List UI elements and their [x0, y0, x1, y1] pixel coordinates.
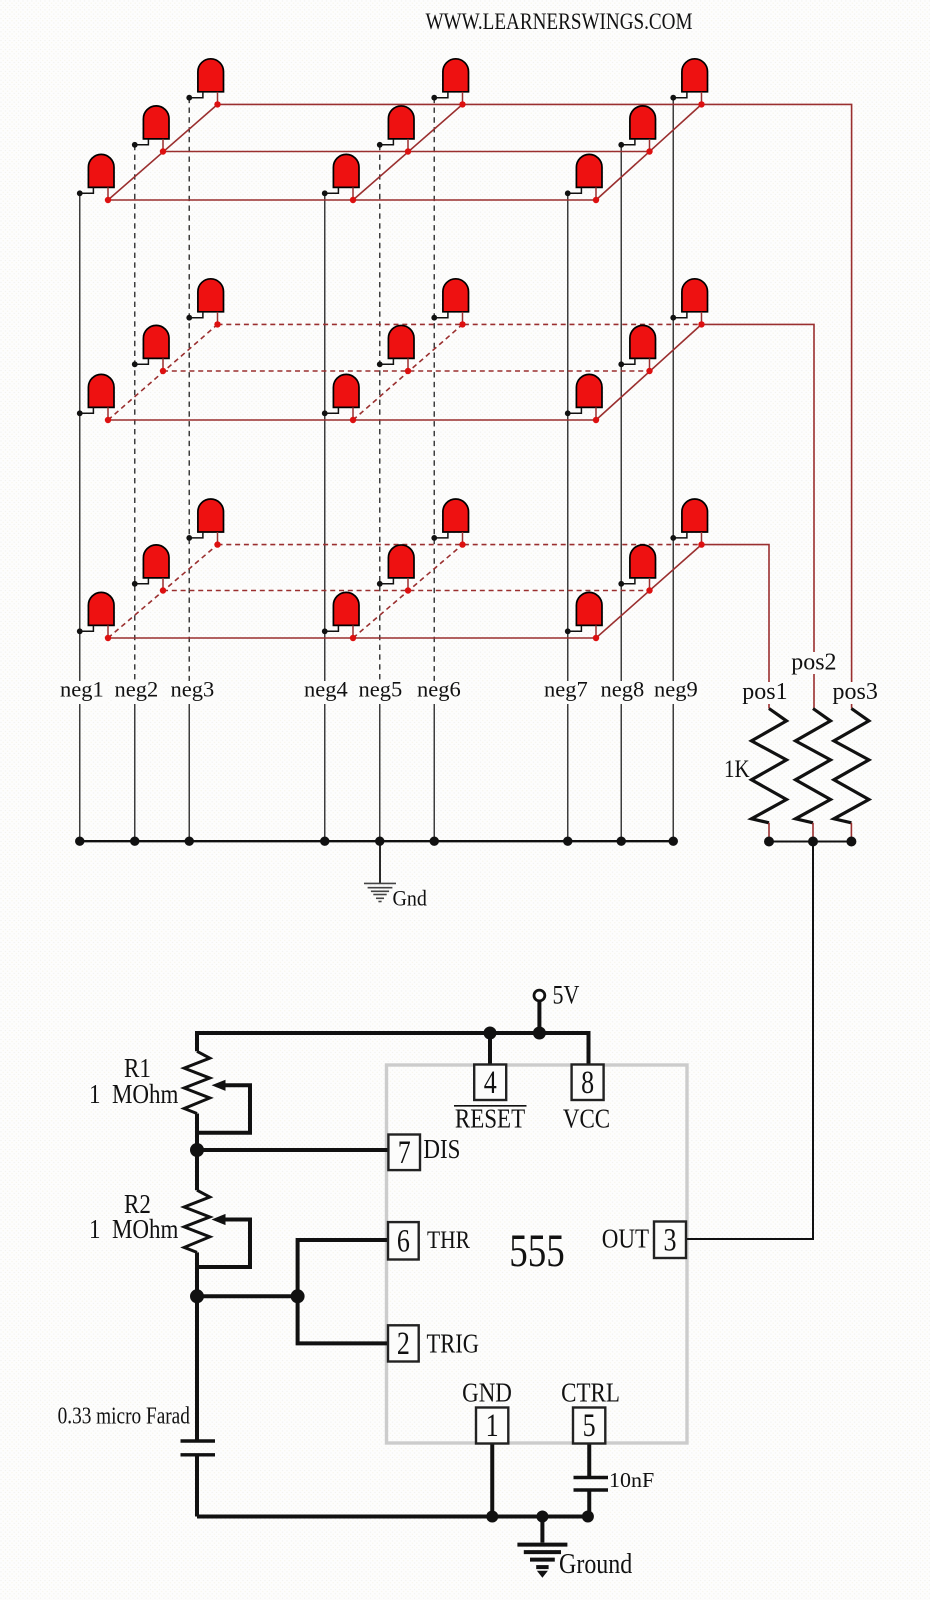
wire neg9 cathode column	[672, 98, 674, 842]
wire neg5 cathode column	[379, 145, 381, 841]
svg-text:neg4: neg4	[304, 677, 348, 702]
svg-text:neg2: neg2	[115, 677, 159, 702]
svg-text:THR: THR	[427, 1226, 470, 1254]
potentiometer R1 1 MOhm	[184, 1051, 250, 1133]
resistor R4 1K (pos3)	[834, 709, 869, 842]
node rail-pin4	[484, 1027, 497, 1040]
svg-text:5: 5	[583, 1408, 596, 1443]
label neg5	[357, 677, 407, 705]
wire layer1 group3 diagonal (anode rail)	[596, 104, 702, 200]
wire layer1 group2 diagonal (anode rail)	[353, 104, 463, 200]
svg-text:neg6: neg6	[417, 677, 461, 702]
svg-text:pos2: pos2	[791, 649, 836, 675]
svg-text:neg5: neg5	[359, 677, 403, 702]
svg-text:4: 4	[484, 1065, 497, 1100]
pin 8 of U1	[572, 1065, 604, 1101]
svg-text:neg3: neg3	[171, 677, 215, 702]
wire cathode ground bus	[80, 840, 674, 842]
wire layer2 group3 diagonal (anode rail)	[596, 324, 702, 420]
LED layer2 position 2	[132, 325, 169, 374]
svg-text:Ground: Ground	[559, 1547, 632, 1580]
node resistor pos2 bottom	[808, 837, 818, 847]
svg-text:VCC: VCC	[563, 1104, 610, 1134]
wire layer3 group3 diagonal (anode rail)	[596, 545, 702, 638]
LED layer1 position 9	[670, 59, 707, 108]
wire R2 bottom to capacitor	[195, 1252, 199, 1441]
LED layer2 position 7	[565, 374, 602, 423]
svg-text:GND: GND	[462, 1378, 512, 1408]
wire neg6 cathode column	[433, 98, 435, 842]
svg-text:8: 8	[581, 1065, 594, 1100]
LED layer1 position 6	[431, 59, 468, 108]
LED layer1 position 5	[377, 106, 414, 155]
LED layer3 position 6	[431, 499, 468, 548]
wire layer1 front-row horizontal (anode rail)	[108, 199, 596, 201]
LED layer1 position 3	[186, 59, 223, 108]
node bus neg4	[320, 837, 329, 846]
LED layer2 position 6	[431, 279, 468, 328]
pin 5 of U1	[573, 1408, 605, 1444]
node bus neg9	[669, 837, 678, 846]
wire neg3 cathode column	[188, 98, 190, 842]
wire OUT (pin3) to riser	[686, 1238, 814, 1240]
svg-text:1: 1	[486, 1408, 499, 1443]
svg-text:1K: 1K	[724, 755, 750, 783]
node bus pin1	[486, 1511, 498, 1523]
wire layer3 front-row horizontal (anode rail)	[108, 637, 596, 639]
svg-text:TRIG: TRIG	[427, 1330, 480, 1359]
wire layer2 front-row horizontal (anode rail)	[108, 419, 596, 421]
wire neg8 cathode column	[620, 145, 622, 841]
label pos3	[831, 679, 879, 705]
svg-text:5V: 5V	[553, 981, 580, 1010]
LED layer1 position 2	[132, 106, 169, 155]
label neg1	[58, 677, 108, 705]
svg-text:6: 6	[397, 1224, 410, 1259]
pin 7 of U1	[388, 1135, 420, 1171]
wire pos3 from layer1 to resistor	[702, 104, 852, 708]
LED layer1 position 4	[322, 154, 359, 203]
svg-text:WWW.LEARNERSWINGS.COM: WWW.LEARNERSWINGS.COM	[426, 8, 693, 34]
wire bottom ground bus	[197, 1515, 593, 1519]
wire R1 bottom to R2 top chain	[195, 1114, 199, 1191]
capacitor C1 0.33 micro Farad	[181, 1439, 216, 1442]
node resistor pos3 bottom	[846, 837, 856, 847]
wire layer2 back-row horizontal (anode rail)	[218, 323, 702, 325]
label neg3	[169, 677, 219, 705]
resistor R3 1K (pos2)	[796, 709, 831, 842]
node bus 10nF	[582, 1511, 594, 1523]
wire 5V top rail	[197, 1033, 589, 1065]
node bus neg8	[617, 837, 626, 846]
wire OUT riser to resistors	[812, 842, 814, 1240]
node resistor pos1 bottom	[764, 837, 774, 847]
label neg8	[599, 677, 649, 705]
LED layer2 position 9	[670, 279, 707, 328]
ground symbol (555 circuit)	[517, 1517, 567, 1578]
wire layer2 middle-row horizontal (anode rail)	[163, 370, 650, 372]
wire layer1 group1 diagonal (anode rail)	[108, 104, 218, 200]
svg-text:7: 7	[398, 1135, 411, 1170]
LED layer3 position 4	[322, 592, 359, 641]
pin 2 of U1	[388, 1325, 419, 1361]
wire 10nF to bus	[587, 1490, 591, 1517]
wire neg4 cathode column	[324, 193, 326, 841]
wire DIS (pin7) to R1/R2 junction	[197, 1148, 389, 1152]
wire resistor-bottom link	[769, 841, 851, 843]
label neg4	[302, 677, 352, 705]
LED layer3 position 5	[377, 545, 414, 594]
svg-text:555: 555	[509, 1226, 564, 1277]
wire pin4 supply drop	[488, 1033, 492, 1065]
wire THR (pin6) bend	[298, 1240, 389, 1296]
wire neg2 cathode column	[134, 145, 136, 841]
svg-text:Gnd: Gnd	[393, 885, 428, 910]
LED layer3 position 2	[132, 545, 169, 594]
svg-text:1 MOhm: 1 MOhm	[89, 1079, 179, 1109]
label neg6	[415, 677, 465, 705]
node rail-5V	[533, 1027, 546, 1040]
label neg7	[542, 677, 592, 705]
label neg9	[652, 677, 702, 705]
LED layer1 position 1	[77, 154, 114, 203]
label neg2	[113, 677, 163, 705]
svg-text:pos1: pos1	[742, 679, 787, 705]
LED layer1 position 7	[565, 154, 602, 203]
LED layer1 position 8	[618, 106, 655, 155]
node bus ground	[536, 1511, 548, 1523]
svg-text:pos3: pos3	[833, 679, 878, 705]
resistor R2 1K (pos1)	[752, 709, 787, 842]
wire layer1 back-row horizontal (anode rail)	[218, 103, 702, 105]
LED layer3 position 3	[186, 499, 223, 548]
wire neg1 cathode column	[79, 193, 81, 841]
LED layer2 position 5	[377, 325, 414, 374]
wire layer3 group2 diagonal (anode rail)	[353, 545, 463, 638]
svg-text:1 MOhm: 1 MOhm	[89, 1214, 179, 1244]
node THR/TRIG junction	[291, 1289, 305, 1303]
supply 5V terminal	[534, 990, 545, 1001]
wire neg7 cathode column	[567, 193, 569, 841]
ground symbol Gnd (cube)	[364, 841, 396, 901]
svg-text:neg8: neg8	[601, 677, 645, 702]
svg-text:neg1: neg1	[60, 677, 104, 702]
node bus neg7	[563, 837, 572, 846]
svg-text:CTRL: CTRL	[561, 1378, 620, 1408]
wire capacitor to bottom bus	[195, 1455, 199, 1517]
node bus neg1	[75, 837, 84, 846]
node bus neg6	[430, 837, 439, 846]
wire pos1 from layer3 to resistor	[702, 545, 770, 709]
LED layer2 position 4	[322, 374, 359, 423]
label pos2	[789, 649, 837, 675]
node DIS junction	[190, 1143, 204, 1157]
svg-text:neg7: neg7	[544, 677, 588, 702]
LED layer2 position 1	[77, 374, 114, 423]
svg-text:DIS: DIS	[423, 1134, 460, 1164]
wire layer1 middle-row horizontal (anode rail)	[163, 151, 650, 153]
wire TRIG (pin2) bend	[298, 1296, 389, 1343]
wire junction link	[197, 1294, 298, 1298]
LED layer2 position 8	[618, 325, 655, 374]
wire layer2 group2 diagonal (anode rail)	[353, 324, 463, 420]
IC U1 555 body outline	[387, 1065, 688, 1443]
svg-text:0.33 micro Farad: 0.33 micro Farad	[58, 1403, 190, 1430]
svg-text:10nF: 10nF	[609, 1468, 654, 1491]
svg-text:neg9: neg9	[654, 677, 698, 702]
pin 1 of U1	[476, 1408, 508, 1444]
pin 4 of U1	[474, 1065, 506, 1101]
wire CTRL pin5 drop	[587, 1444, 591, 1478]
wire GND pin1 drop	[490, 1444, 494, 1517]
capacitor C2 10nF	[574, 1476, 609, 1479]
wire layer3 group1 diagonal (anode rail)	[108, 545, 218, 638]
svg-text:RESET: RESET	[455, 1104, 526, 1134]
svg-text:3: 3	[663, 1223, 676, 1258]
wire pos2 from layer2 to resistor	[702, 324, 815, 708]
svg-text:2: 2	[397, 1326, 410, 1361]
node bus neg2	[130, 837, 139, 846]
LED layer3 position 8	[618, 545, 655, 594]
wire layer3 middle-row horizontal (anode rail)	[163, 590, 650, 592]
node bus neg3	[185, 837, 194, 846]
LED layer2 position 3	[186, 279, 223, 328]
pin 6 of U1	[388, 1222, 419, 1259]
node cap junction	[190, 1289, 204, 1303]
svg-text:OUT: OUT	[602, 1224, 650, 1254]
potentiometer R2 1 MOhm	[184, 1190, 250, 1267]
LED layer3 position 9	[670, 499, 707, 548]
wire layer3 back-row horizontal (anode rail)	[218, 544, 702, 546]
pin 3 of U1	[654, 1222, 686, 1259]
wire layer2 group1 diagonal (anode rail)	[108, 324, 218, 420]
node bus neg5	[375, 837, 384, 846]
label pos1	[740, 679, 788, 705]
LED layer3 position 7	[565, 592, 602, 641]
LED layer3 position 1	[77, 592, 114, 641]
